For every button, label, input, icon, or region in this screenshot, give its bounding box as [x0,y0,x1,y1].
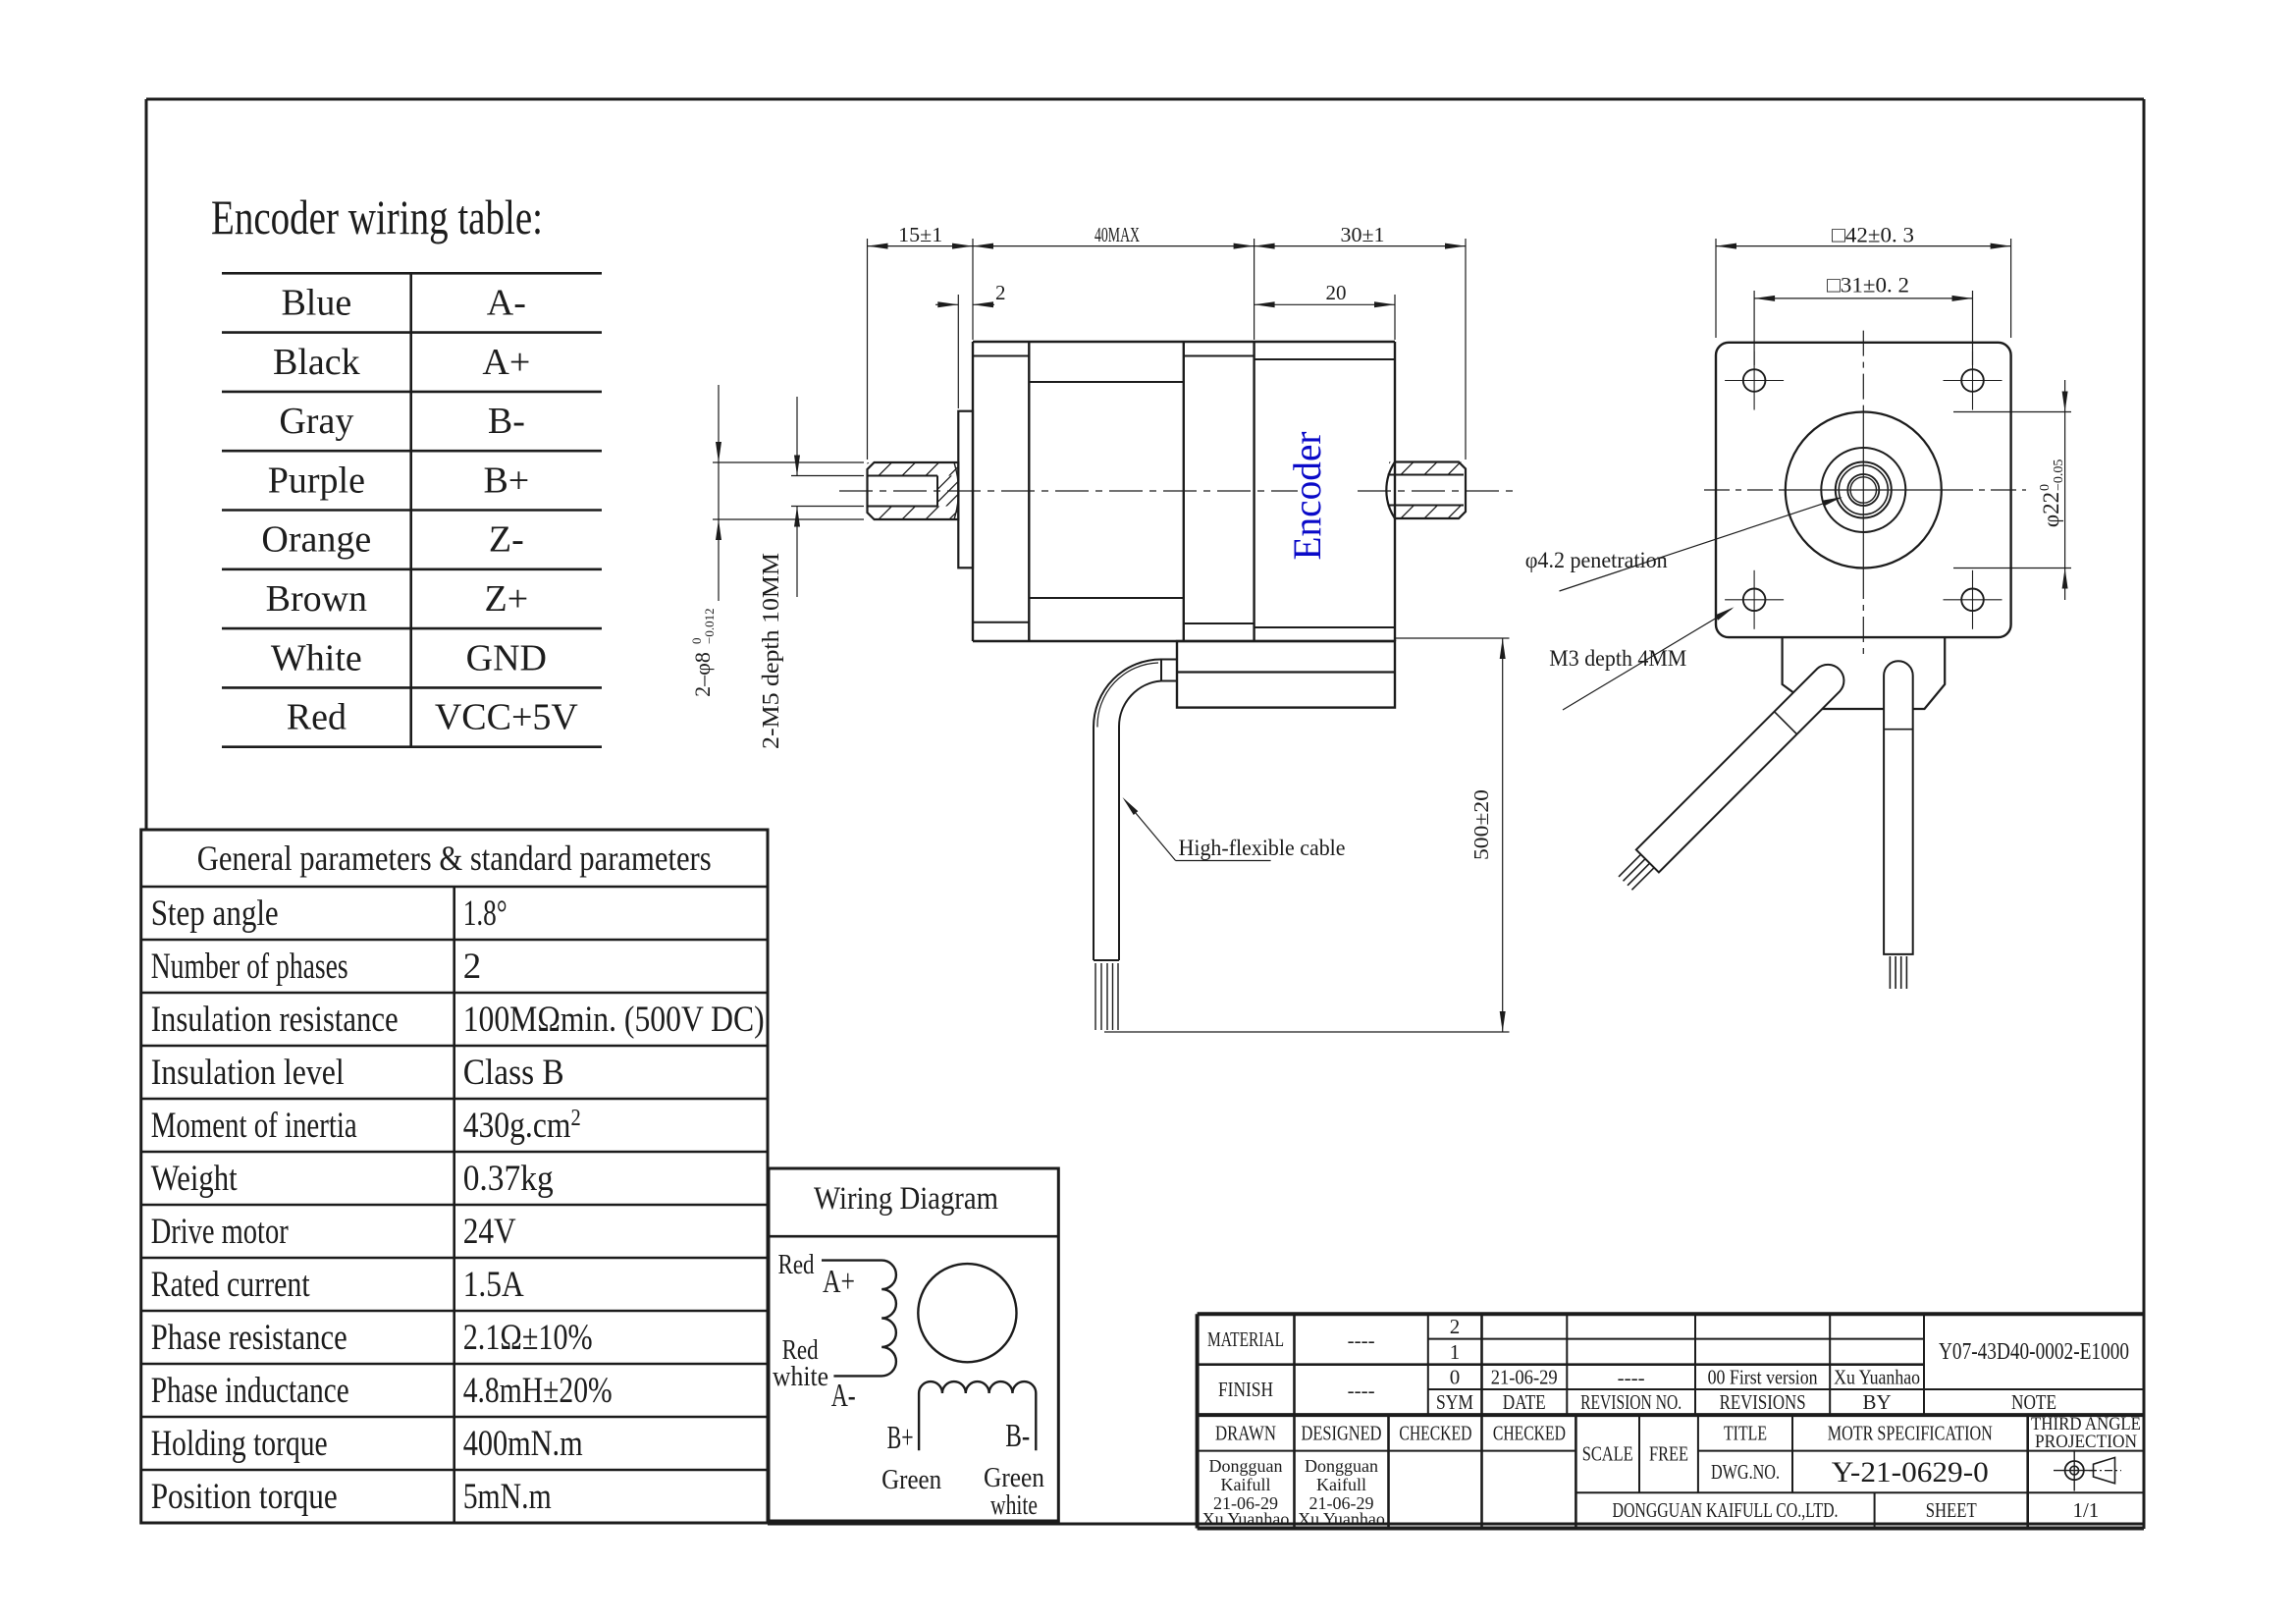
svg-text:40MAX: 40MAX [1095,223,1140,246]
svg-text:30±1: 30±1 [1341,223,1385,246]
svg-text:φ4.2 penetration: φ4.2 penetration [1525,548,1668,572]
svg-text:B-: B- [1005,1418,1030,1454]
svg-text:Kaifull: Kaifull [1316,1475,1366,1494]
svg-text:Blue: Blue [281,282,351,323]
dimension 2-phi8 shaft diameter [689,385,864,697]
svg-text:Orange: Orange [261,519,371,561]
svg-text:Drive motor: Drive motor [151,1212,289,1252]
svg-text:Red: Red [778,1249,815,1280]
svg-text:Phase inductance: Phase inductance [151,1371,349,1411]
svg-text:B-: B- [488,401,525,442]
svg-text:0.37kg: 0.37kg [463,1159,554,1199]
svg-text:NOTE: NOTE [2011,1390,2056,1414]
dimension 15±1 [868,223,974,249]
svg-text:SHEET: SHEET [1926,1498,1977,1522]
svg-text:----: ---- [1618,1366,1645,1389]
svg-text:Phase resistance: Phase resistance [151,1318,347,1358]
svg-text:SYM: SYM [1436,1390,1473,1414]
svg-text:A+: A+ [482,342,530,383]
svg-text:Encoder wiring table:: Encoder wiring table: [211,189,543,244]
svg-text:Z-: Z- [489,519,524,561]
svg-text:Brown: Brown [266,578,367,620]
front view mounting flange square [1716,343,2011,637]
svg-text:Y07-43D40-0002-E1000: Y07-43D40-0002-E1000 [1939,1339,2129,1365]
front view center crosshair [1704,331,2026,659]
svg-text:Y-21-0629-0: Y-21-0629-0 [1832,1456,1989,1489]
label M3 depth 4MM with leader [1549,607,1734,710]
svg-text:430g.cm2: 430g.cm2 [463,1106,581,1146]
svg-text:VCC+5V: VCC+5V [435,697,579,738]
svg-text:Kaifull: Kaifull [1221,1475,1271,1494]
svg-text:□31±0. 2: □31±0. 2 [1827,273,1909,298]
rear housing protrusion below flange [1783,637,1946,709]
svg-text:Insulation resistance: Insulation resistance [151,1000,399,1040]
dimension 40MAX [973,223,1255,249]
svg-text:A+: A+ [823,1264,855,1300]
svg-text:5mN.m: 5mN.m [463,1477,552,1517]
svg-text:2–φ8: 2–φ8 [690,652,715,697]
svg-text:Xu Yuanhao: Xu Yuanhao [1202,1509,1290,1529]
svg-text:4.8mH±20%: 4.8mH±20% [463,1371,613,1411]
svg-text:BY: BY [1863,1390,1892,1414]
svg-text:REVISIONS: REVISIONS [1720,1390,1806,1414]
svg-text:REVISION NO.: REVISION NO. [1580,1390,1682,1414]
svg-text:1/1: 1/1 [2072,1498,2099,1522]
svg-text:Z+: Z+ [485,578,529,620]
encoder wiring table entries [261,282,578,737]
svg-text:500±20: 500±20 [1469,789,1493,860]
svg-text:Encoder: Encoder [1285,432,1329,561]
svg-text:00 First version: 00 First version [1708,1365,1818,1388]
angled cable (front view) [1636,665,1844,873]
svg-text:Weight: Weight [151,1159,239,1199]
svg-text:1: 1 [1450,1340,1461,1364]
svg-text:Purple: Purple [268,460,365,501]
svg-text:FINISH: FINISH [1218,1378,1273,1401]
svg-text:21-06-29: 21-06-29 [1491,1365,1558,1388]
svg-text:CHECKED: CHECKED [1493,1421,1566,1444]
svg-text:□42±0. 3: □42±0. 3 [1832,223,1914,247]
encoder wiring table grid [222,273,602,746]
front pilot boss plate [958,411,973,568]
svg-text:DATE: DATE [1503,1390,1546,1414]
wiring diagram box [769,1168,1058,1521]
svg-text:1.8°: 1.8° [463,893,507,934]
dimension square 42±0.3 [1716,223,2011,339]
svg-text:General parameters & standard: General parameters & standard parameters [197,839,712,878]
svg-text:Holding torque: Holding torque [151,1424,328,1464]
mounting holes with crosshairs [1725,352,2002,629]
svg-text:Moment of inertia: Moment of inertia [151,1106,357,1146]
svg-text:Step angle: Step angle [151,893,279,934]
svg-text:----: ---- [1348,1328,1375,1352]
svg-text:Dongguan: Dongguan [1305,1456,1378,1476]
dimension 2-M5 depth 10MM [759,397,864,749]
svg-text:DWG.NO.: DWG.NO. [1711,1460,1780,1484]
sheet border frame [146,98,2144,101]
svg-text:Insulation level: Insulation level [151,1053,345,1093]
left output shaft [868,462,959,519]
side view centerline [839,490,1298,492]
phase A coil winding [822,1261,896,1377]
svg-text:Position torque: Position torque [151,1477,338,1517]
svg-text:White: White [271,637,362,678]
svg-text:A-: A- [831,1378,856,1414]
vertical cable (front view) [1884,661,1913,954]
svg-text:Number of phases: Number of phases [151,947,348,987]
dimension 20 (encoder length) [1255,281,1395,307]
svg-text:FREE: FREE [1649,1442,1688,1466]
svg-text:CHECKED: CHECKED [1399,1421,1471,1444]
svg-text:Xu Yuanhao: Xu Yuanhao [1298,1509,1385,1529]
svg-text:Green: Green [881,1464,941,1495]
svg-text:SCALE: SCALE [1582,1442,1633,1466]
dimension phi22 [1953,380,2071,600]
cable wire strands [1095,963,1118,1030]
svg-text:GND: GND [466,637,547,678]
svg-text:2: 2 [463,947,482,987]
general parameters table grid [141,830,768,1523]
svg-text:white: white [990,1489,1038,1521]
svg-text:15±1: 15±1 [898,223,942,246]
side view motor outline [973,342,1395,641]
dimension 500±20 cable length [1104,638,1510,1032]
svg-text:Class B: Class B [463,1053,564,1093]
svg-text:20: 20 [1326,281,1347,304]
svg-text:100MΩmin. (500V DC): 100MΩmin. (500V DC) [463,1000,765,1040]
svg-text:2-M5 depth 10MM: 2-M5 depth 10MM [759,553,784,749]
svg-text:A-: A- [487,282,526,323]
third angle projection symbol [2054,1450,2121,1491]
svg-text:M3 depth 4MM: M3 depth 4MM [1549,646,1686,671]
svg-text:Black: Black [273,342,360,383]
dimension extension lines (top) [868,239,1467,460]
high-flexible cable elbow [1094,660,1161,961]
svg-text:−0.05: −0.05 [2052,460,2066,491]
svg-text:TITLE: TITLE [1724,1421,1767,1444]
svg-text:DRAWN: DRAWN [1215,1421,1276,1444]
svg-text:2.1Ω±10%: 2.1Ω±10% [463,1318,593,1358]
label high-flexible cable [1123,797,1346,861]
front view boss and shaft circles [1786,412,1942,568]
svg-text:PROJECTION: PROJECTION [2035,1432,2137,1452]
svg-text:1.5A: 1.5A [463,1265,524,1305]
phase B coil winding [919,1381,1036,1450]
svg-text:φ22: φ22 [2039,492,2063,527]
dimension square 31±0.2 [1754,273,1972,366]
title block texts [1202,1315,2141,1529]
svg-text:B+: B+ [483,460,529,501]
svg-text:Gray: Gray [279,401,353,442]
svg-text:Wiring Diagram: Wiring Diagram [814,1181,998,1217]
title block grid [1198,1314,2144,1528]
right rear shaft [1386,462,1466,519]
svg-text:0: 0 [1450,1365,1461,1388]
label phi4.2 penetration with leader [1525,497,1842,591]
svg-text:Xu Yuanhao: Xu Yuanhao [1834,1365,1920,1388]
svg-text:2: 2 [995,281,1006,304]
svg-text:−0.012: −0.012 [702,608,717,644]
svg-text:DESIGNED: DESIGNED [1302,1421,1382,1444]
general parameters table entries [151,893,765,1517]
svg-text:----: ---- [1348,1379,1375,1402]
svg-text:Dongguan: Dongguan [1209,1456,1283,1476]
svg-text:Rated current: Rated current [151,1265,311,1305]
svg-text:Red: Red [287,697,347,738]
svg-text:24V: 24V [463,1212,516,1252]
motor rotor circle [918,1264,1016,1362]
svg-text:2: 2 [1450,1315,1461,1338]
svg-text:DONGGUAN KAIFULL CO.,LTD.: DONGGUAN KAIFULL CO.,LTD. [1613,1498,1839,1522]
svg-text:white: white [773,1361,828,1392]
dimension 2 (pilot depth) [935,281,1006,307]
svg-text:B+: B+ [887,1420,914,1456]
dimension 30±1 [1255,223,1466,249]
wiring diagram labels [773,1249,1044,1521]
svg-text:MATERIAL: MATERIAL [1207,1327,1284,1351]
encoder connector box [1161,641,1395,708]
svg-text:High-flexible cable: High-flexible cable [1179,836,1346,860]
svg-text:400mN.m: 400mN.m [463,1424,583,1464]
svg-text:MOTR SPECIFICATION: MOTR SPECIFICATION [1828,1421,1993,1444]
svg-text:0: 0 [2038,484,2053,491]
